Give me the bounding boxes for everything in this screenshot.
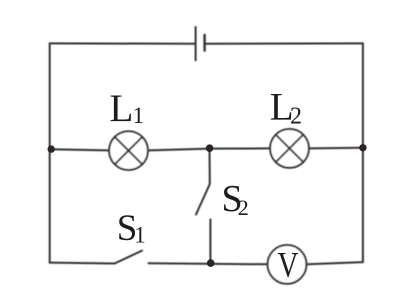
battery long plate (+) <box>195 27 197 60</box>
node junction dot left (node A) <box>48 145 55 152</box>
node junction dot right (node C) <box>359 144 366 151</box>
node junction dot bottom (node D) <box>207 259 215 267</box>
wire middle-far-right (L2 to right rail) <box>310 147 363 150</box>
switch S2 lower lead wire <box>209 220 211 264</box>
svg-text:2: 2 <box>290 104 302 130</box>
label S2 <box>222 178 249 220</box>
label L1 <box>110 87 145 130</box>
wire left side <box>49 43 51 262</box>
svg-text:L: L <box>110 87 134 130</box>
svg-text:1: 1 <box>133 103 145 128</box>
switch S2 blade (open) <box>196 184 210 215</box>
svg-text:2: 2 <box>238 195 249 220</box>
wire top-left (corner to battery) <box>50 42 196 44</box>
lamp L1 <box>109 131 148 170</box>
svg-text:1: 1 <box>134 223 146 248</box>
wire right side <box>362 43 364 262</box>
label S1 <box>117 208 146 249</box>
wire top-right (battery to corner) <box>205 42 363 44</box>
wire middle-center (L1 to node B) <box>149 149 210 151</box>
wire middle-left (left rail to lamp L1) <box>50 149 108 150</box>
switch S1 blade (open) <box>115 251 143 264</box>
wire bottom-right (voltmeter to corner) <box>307 262 363 264</box>
svg-text:V: V <box>278 244 299 284</box>
label L2 <box>270 86 302 130</box>
wire bottom-left (corner to S1) <box>50 262 115 265</box>
switch S2 upper lead wire <box>209 149 211 184</box>
battery short plate (-) <box>203 35 205 51</box>
wire bottom-center (S1 to voltmeter) <box>149 263 267 264</box>
node junction dot center (node B) <box>206 144 214 152</box>
lamp L2 <box>270 129 309 168</box>
wire middle-right (node B to lamp L2) <box>210 147 270 149</box>
voltmeter V <box>268 245 307 284</box>
